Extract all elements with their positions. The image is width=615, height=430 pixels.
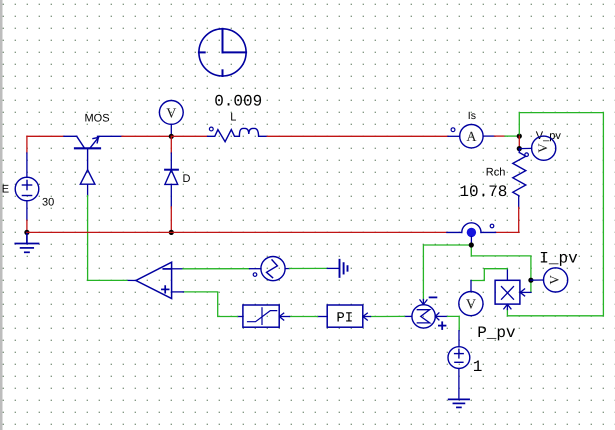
node: I_pv tap dot [528, 278, 533, 283]
dc source 1 [448, 347, 470, 369]
wire: comparator output (to MOS gate) [88, 279, 136, 281]
ground (rotated, carrier) [340, 260, 348, 277]
svg-text:PI: PI [336, 311, 353, 327]
minus sign (comparator) [163, 268, 170, 270]
wire: source 1 bottom lead [458, 369, 460, 398]
summing junction [412, 305, 435, 328]
svg-text:V: V [166, 106, 176, 121]
dot marker (carrier source) [253, 273, 257, 277]
minus sign (summer) [430, 296, 437, 298]
node: dot at ammeter output [517, 134, 522, 139]
ground (E source) [15, 232, 38, 252]
voltage sensor V_pv [519, 136, 556, 160]
svg-text:V: V [547, 274, 562, 284]
plus sign (comparator) [162, 286, 169, 293]
wire: arrow into multiplier bottom [504, 304, 511, 309]
svg-text:E: E [2, 184, 9, 196]
dot marker (ammeter) [451, 128, 455, 132]
gate triangle of MOSFET [80, 170, 95, 184]
svg-text:Rch: Rch [486, 167, 506, 179]
MOSFET MOS [64, 136, 122, 169]
wire: resistor to bottom rail (red) [496, 207, 519, 232]
carrier source (triangle-wave) [261, 257, 285, 281]
wire: node to inductor (red) [171, 135, 207, 137]
dot marker (inductor) [209, 127, 213, 131]
wire: E source bottom lead [26, 201, 28, 233]
wire: carrier source to ground [285, 267, 339, 269]
node: E- junction dot [24, 230, 29, 235]
voltmeter P_pv [459, 292, 483, 316]
wire: summer plus input from source 1 (green) [448, 316, 460, 330]
inductor L [208, 128, 268, 141]
wire: hop over probe node (blue) [447, 223, 496, 233]
wire: E+ to MOSFET drain (red, top rail) [27, 135, 64, 137]
dot marker (probe node) [490, 224, 494, 228]
ammeter Is [448, 125, 519, 148]
wire: gate to comparator output (green) [87, 196, 89, 281]
wire: source 1 top lead [458, 331, 460, 347]
wire: between nodes (red) [518, 136, 520, 149]
diode D [165, 170, 178, 185]
svg-text:0.009: 0.009 [214, 93, 262, 111]
node: dot at V_pv tap [517, 146, 522, 151]
resistor Rch [513, 149, 526, 208]
wire: inductor to ammeter (red) [267, 135, 448, 137]
dot marker (V_pv sensor) [525, 153, 529, 157]
arrow into PI right [363, 313, 367, 320]
current sensor I_pv [531, 268, 568, 292]
node: control tap dot [469, 242, 474, 247]
wire: limiter output to comparator plus input [172, 292, 243, 317]
wire: MOSFET source to drain-node (blue then red) [122, 135, 171, 137]
wire: node to diode cathode [170, 136, 172, 169]
svg-text:10.78: 10.78 [459, 183, 507, 201]
arrow into summer top [420, 300, 427, 305]
op-amp comparator [136, 262, 172, 298]
svg-text:P_pv: P_pv [477, 324, 516, 342]
voltmeter V (top) [159, 101, 183, 137]
clock symbol [199, 29, 246, 76]
node: diode bottom junction dot [169, 230, 174, 235]
wire: diode anode to bottom rail [170, 184, 172, 232]
plus sign (summer) [439, 322, 446, 329]
PI block [327, 305, 363, 327]
wire: multiplier top pin to P_pv meter (blue+green staircase) [471, 269, 507, 292]
arrow into limiter right [279, 313, 283, 320]
svg-text:V: V [466, 298, 476, 313]
wire: arrow into multiplier right [520, 289, 531, 296]
wire: E source top lead [26, 136, 28, 177]
wire: control tap to summer (green, left branch) [423, 245, 471, 300]
wire: summer output to PI (blue/green) [363, 315, 412, 317]
svg-text:D: D [183, 173, 191, 185]
svg-text:Is: Is [468, 110, 476, 122]
svg-text:MOS: MOS [85, 113, 110, 125]
node: blue probe node [467, 228, 476, 237]
voltage source E [15, 177, 39, 201]
arrow into summer right [435, 313, 447, 320]
wire: bottom rail (red) [27, 231, 447, 233]
multiplier block [495, 280, 520, 304]
wire: PI to limiter [279, 316, 327, 318]
wire: gate stub [87, 184, 89, 195]
ground (source 1) [449, 399, 469, 407]
svg-text:V: V [535, 143, 550, 153]
svg-text:30: 30 [42, 196, 54, 208]
wire: comparator minus input to carrier source [172, 268, 261, 270]
svg-text:L: L [230, 112, 236, 124]
node: drain junction dot [169, 134, 174, 139]
svg-text:I_pv: I_pv [539, 250, 578, 268]
svg-text:A: A [466, 130, 477, 145]
svg-text:V_pv: V_pv [536, 130, 562, 142]
limiter block [243, 305, 279, 327]
svg-text:1: 1 [473, 358, 483, 376]
wire: probe node stub down [470, 237, 472, 246]
sigma glyph [417, 310, 429, 323]
wire: V_pv feedback loop (green) [507, 113, 603, 316]
wire: control tap to I_pv branch (green) [471, 245, 531, 292]
